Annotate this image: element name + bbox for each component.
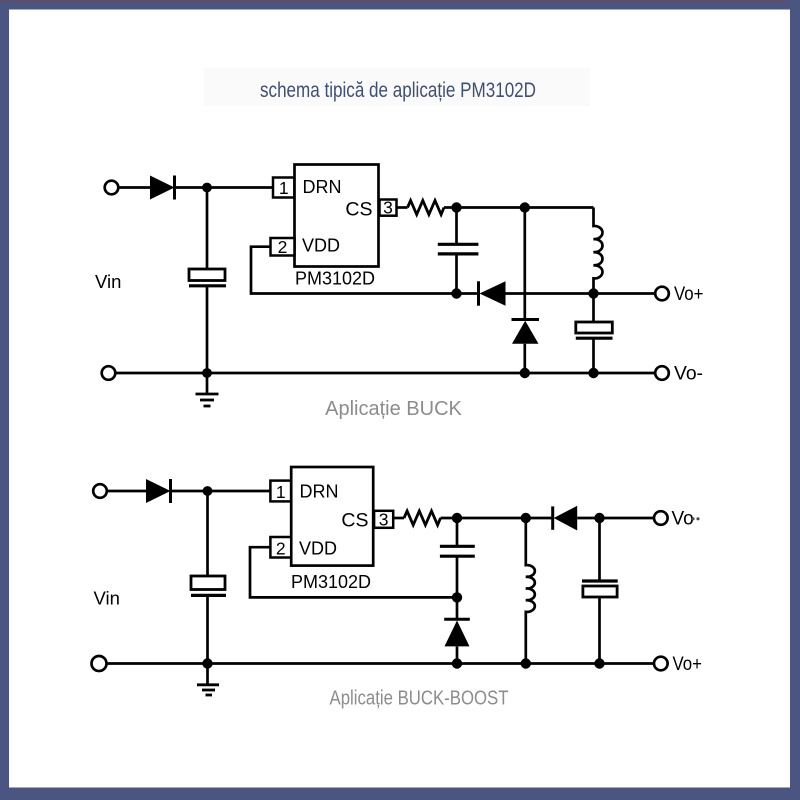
inductor L1 [594,208,603,294]
svg-text:Vo: Vo [672,509,694,530]
svg-text:1: 1 [279,178,289,198]
wire [393,517,404,520]
wire [577,517,654,520]
node (inductor top) [521,513,531,523]
capacitor C3 (output) [576,322,613,338]
wire [206,595,209,663]
node C [452,513,462,523]
wire [457,292,479,295]
svg-text:Aplicație BUCK-BOOST: Aplicație BUCK-BOOST [330,688,509,710]
wire (bottom rail) [106,662,654,665]
wire [456,518,459,546]
svg-text:1: 1 [276,482,286,502]
node [594,658,604,668]
resistor R2 [404,511,441,525]
pin 2 box [271,238,295,256]
wire [206,286,209,373]
wire [523,344,526,373]
wire [592,338,595,373]
wire [171,490,271,493]
svg-text:PM3102D: PM3102D [295,269,375,289]
diode D2 (output, pointing left) [479,281,506,305]
svg-text:CS: CS [345,199,372,221]
wire [592,294,595,323]
node (ground junction) [202,658,212,668]
diode D6 (pointing up) [444,619,470,646]
wire [206,491,209,576]
bottom rail terminal (left) [102,366,116,380]
wire [455,208,458,245]
wire [457,206,594,209]
node (input junction) [203,486,213,496]
wire [598,518,601,581]
wire (VDD feedback) [251,247,457,294]
svg-text:CS: CS [341,510,368,532]
capacitor C5 (snubber) [440,546,475,556]
wire [175,186,274,189]
wire [598,597,601,664]
svg-text:DRN: DRN [300,482,339,502]
node (ground junction) [202,368,212,378]
wire [456,646,459,663]
wire (VDD feedback) [250,547,457,597]
node [588,368,598,378]
svg-text:Aplicație BUCK: Aplicație BUCK [325,398,462,420]
ground [196,394,219,406]
svg-text:Vo+: Vo+ [673,654,703,675]
svg-text:VDD: VDD [302,235,340,255]
diode D5 (top, pointing left) [553,506,578,531]
pin 1 box [270,481,291,502]
capacitor C4 (input) [191,576,226,595]
wire (switch node drop) [523,208,526,320]
terminal Vo- [655,366,669,380]
wire [206,373,209,394]
wire [456,556,459,619]
circuit 1: input terminal [105,181,119,195]
svg-text:PM3102D: PM3102D [291,572,371,592]
wire [444,206,457,209]
capacitor C2 (snubber) [438,244,479,254]
node [520,368,530,378]
node [452,658,462,668]
terminal Vo+ (bottom right) [654,657,668,671]
node (feedback junction) [452,592,462,602]
diode D4 (input, pointing right) [146,479,171,503]
wire (bottom rail) [115,372,655,375]
capacitor C1 (input) [189,269,226,286]
node (feedback/output junction) [451,288,461,298]
node (input junction) [202,183,212,193]
resistor R1 [408,201,445,215]
wire [206,188,209,270]
node A [451,202,461,212]
wire [506,292,663,295]
wire [118,186,150,189]
wire [107,490,146,493]
svg-text:DRN: DRN [303,177,342,197]
node (output cap top) [594,513,604,523]
svg-text:2: 2 [278,237,288,257]
diode D1 (input, pointing right) [150,176,175,200]
pin 3 box [380,200,397,216]
svg-text:Vin: Vin [95,271,121,292]
bottom rail terminal (left) [92,656,107,671]
pin 1 box [273,178,295,198]
capacitor C6 (output) [582,581,618,597]
circuit 2: input terminal [93,484,107,498]
svg-text:Vin: Vin [94,588,120,609]
pin 3 box [374,511,393,528]
pin 2 box [270,537,291,558]
op IC U1 PM3102D [295,165,379,267]
wire [455,254,458,294]
svg-text:3: 3 [383,197,393,217]
node [521,658,531,668]
wire [457,517,553,520]
svg-text:Vo+: Vo+ [674,284,704,305]
svg-text:VDD: VDD [299,539,337,559]
svg-text:schema tipică de aplicație PM3: schema tipică de aplicație PM3102D [260,79,536,102]
wire [206,664,209,685]
svg-text:Vo-: Vo- [674,364,703,385]
node B [520,202,530,212]
terminal Vo+ [655,287,669,301]
op IC U2 PM3102D [291,467,373,566]
svg-text:2: 2 [276,538,286,558]
node (inductor/output junction) [588,288,598,298]
wire [441,517,458,520]
terminal Vo- (top right) [654,511,668,525]
wire [397,206,408,209]
diode D3 (freewheel, pointing up) [512,320,540,344]
inductor L2 [526,518,535,664]
ground [197,685,219,695]
svg-text:3: 3 [379,509,389,529]
